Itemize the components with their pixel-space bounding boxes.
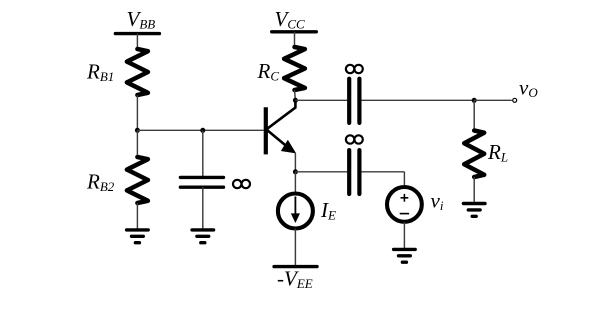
capacitor C2 (infinite) vertical plates <box>347 150 351 194</box>
wire VBB bar to RB1 <box>136 34 138 50</box>
label infinity (bypass cap) <box>233 180 241 188</box>
svg-text:vO: vO <box>519 76 538 101</box>
wire emitter to emitter node <box>294 153 296 172</box>
node A junction dot <box>135 128 140 133</box>
current source IE <box>278 194 313 229</box>
wire current source to -VEE bar <box>294 229 296 267</box>
ground under RB2 <box>127 228 149 231</box>
wire bypass node to capacitor <box>202 130 204 177</box>
ground under RL <box>463 202 485 205</box>
output node junction dot <box>472 98 477 103</box>
resistor RB1 <box>127 49 148 95</box>
wire bypass cap to ground <box>202 187 204 230</box>
IE arrow <box>294 197 296 216</box>
voltage source vi <box>387 187 422 222</box>
capacitor C1 (infinite) vertical plates <box>347 79 351 123</box>
svg-text:RC: RC <box>257 59 280 84</box>
wire output node to RL <box>473 100 475 131</box>
vi minus sign <box>400 213 409 215</box>
wire RB1 to node A <box>136 95 138 130</box>
wire VCC bar to RC <box>294 32 296 48</box>
resistor RC <box>284 47 305 90</box>
vi plus sign <box>401 197 409 199</box>
wire RC to collector node <box>294 90 297 100</box>
resistor RB2 <box>127 157 148 203</box>
collector node junction dot <box>293 98 298 103</box>
ground under vi <box>394 248 416 251</box>
ground under bypass cap <box>192 228 214 231</box>
wire output node to terminal <box>474 99 512 101</box>
capacitor bypass (infinite) <box>180 176 223 179</box>
svg-text:RB1: RB1 <box>86 59 114 84</box>
svg-text:VCC: VCC <box>275 7 305 32</box>
label infinity (C1) <box>346 65 354 73</box>
wire emitter node to coupling cap C2 <box>295 171 347 173</box>
wire collector node to coupling cap C1 <box>295 99 347 101</box>
supply bar VCC <box>272 30 317 33</box>
wire RB2 to ground <box>136 203 138 230</box>
wire base row (node A to transistor base) <box>137 129 263 131</box>
resistor RL <box>464 131 484 178</box>
svg-text:RB2: RB2 <box>86 169 115 194</box>
supply bar -VEE <box>274 265 317 268</box>
svg-text:vi: vi <box>431 189 444 214</box>
wire RL to ground <box>473 177 475 204</box>
svg-text:RL: RL <box>487 140 508 165</box>
wire C1 to output node <box>361 99 474 101</box>
transistor Q1 collector stroke <box>267 100 296 129</box>
svg-text:IE: IE <box>320 198 336 223</box>
junction dot bypass node <box>200 128 205 133</box>
output terminal (open circle) <box>513 98 517 102</box>
wire vi to ground <box>403 222 405 250</box>
wire node A to RB2 <box>136 130 138 157</box>
wire emitter node to current source <box>294 172 296 193</box>
transistor Q1 base bar <box>264 107 268 154</box>
wire C2 to vi source <box>361 171 404 173</box>
transistor Q1 emitter stroke with arrow <box>267 130 291 150</box>
svg-text:-VEE: -VEE <box>277 267 313 292</box>
label infinity (C2) <box>346 135 354 143</box>
svg-text:VBB: VBB <box>127 7 156 32</box>
supply bar VBB <box>115 32 159 35</box>
emitter node junction dot <box>293 169 298 174</box>
